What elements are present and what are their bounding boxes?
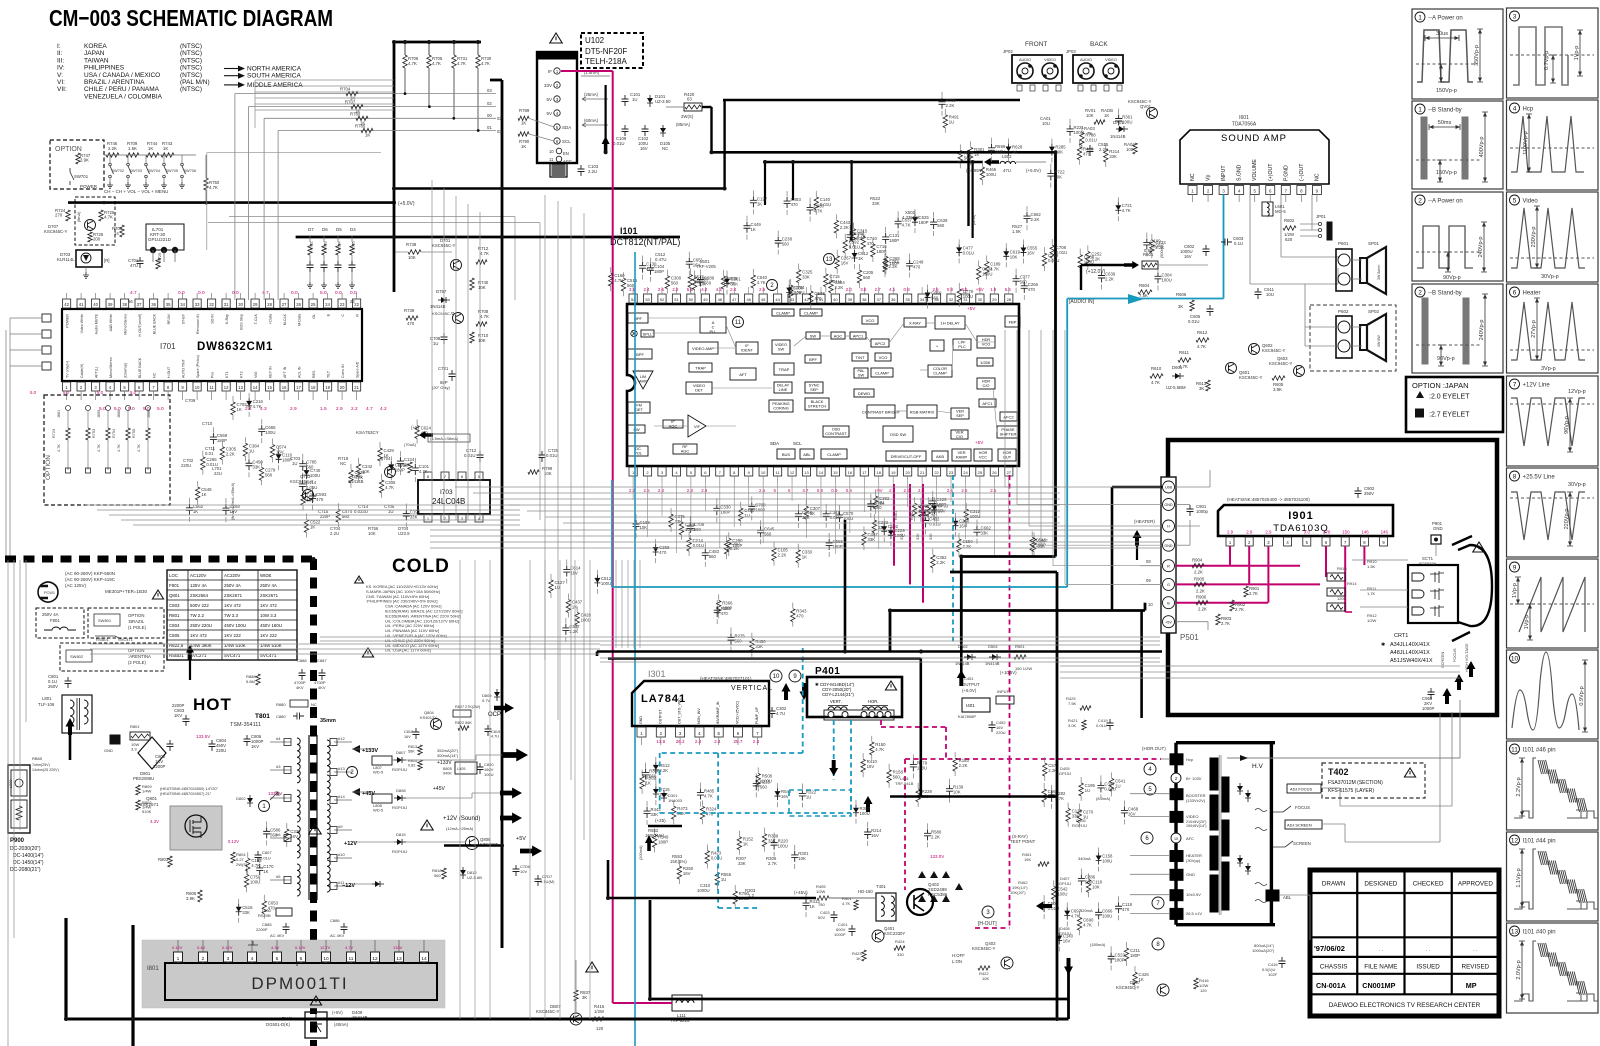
svg-text:39: 39 xyxy=(108,302,113,307)
svg-text:21: 21 xyxy=(354,385,359,390)
svg-text:16V: 16V xyxy=(871,833,879,838)
svg-text:2.9: 2.9 xyxy=(1227,530,1234,535)
resistor R801 boxed xyxy=(130,732,150,740)
svg-text:1U: 1U xyxy=(806,794,812,799)
svg-text:0.01U: 0.01U xyxy=(849,245,860,250)
svg-text:24: 24 xyxy=(963,470,968,475)
svg-text:VIDEO AMP: VIDEO AMP xyxy=(692,346,714,351)
svg-text:FSA37012M (SECTION): FSA37012M (SECTION) xyxy=(1328,780,1383,786)
resistor R747 3.9K xyxy=(76,153,80,164)
svg-text:3.3: 3.3 xyxy=(131,747,137,752)
svg-text:H.OUT(on/off): H.OUT(on/off) xyxy=(138,314,142,337)
svg-text:AKB: AKB xyxy=(936,454,944,459)
svg-text:2.0Vp-p: 2.0Vp-p xyxy=(1516,960,1522,979)
svg-text:BUS: BUS xyxy=(782,452,791,457)
svg-text:14: 14 xyxy=(253,385,258,390)
svg-text:330: 330 xyxy=(900,534,904,540)
bus +5V top with pull-ups xyxy=(394,41,481,44)
svg-text:VII:: VII: xyxy=(57,86,67,93)
svg-text:3W 8ohm: 3W 8ohm xyxy=(1377,265,1381,280)
svg-text:3.9K: 3.9K xyxy=(80,158,89,163)
capacitor C603 0.1U xyxy=(1221,239,1232,246)
svg-text:2.2K: 2.2K xyxy=(946,103,955,108)
svg-text:M-Data: M-Data xyxy=(298,314,302,326)
svg-text:16V: 16V xyxy=(640,146,648,151)
svg-text:3K: 3K xyxy=(582,995,587,1000)
svg-text:100U: 100U xyxy=(982,271,992,276)
svg-text:39: 39 xyxy=(848,297,853,302)
legend arrows NORTH/SOUTH/MIDDLE AMERICA xyxy=(224,68,238,70)
svg-text:(+5.0V): (+5.0V) xyxy=(1026,168,1041,173)
magenta dashed wire right of I101 xyxy=(1009,475,1011,759)
T801 core lines xyxy=(308,735,310,900)
zener D812 UZ-5.6B xyxy=(462,867,464,870)
svg-text:13: 13 xyxy=(826,257,833,263)
svg-text:15K(1%): 15K(1%) xyxy=(670,859,687,864)
svg-text:330: 330 xyxy=(916,534,920,540)
svg-text:OUT_STG_VCC: OUT_STG_VCC xyxy=(678,698,682,724)
svg-text:560: 560 xyxy=(265,472,273,477)
svg-text:(+12.0V): (+12.0V) xyxy=(1086,269,1106,275)
svg-text:D815: D815 xyxy=(396,832,406,837)
svg-text:VCO: VCO xyxy=(866,318,875,323)
svg-text:I101 #46 pin: I101 #46 pin xyxy=(1523,748,1556,754)
svg-text:53: 53 xyxy=(645,297,650,302)
circled number 11 xyxy=(733,317,744,328)
diode D301 1N4003 xyxy=(663,790,665,793)
svg-text:36: 36 xyxy=(891,297,896,302)
svg-text:R: R xyxy=(356,314,360,317)
bus horizontal y188 xyxy=(394,187,725,190)
svg-text:40: 40 xyxy=(93,302,98,307)
svg-text:AFT(L): AFT(L) xyxy=(95,367,99,378)
svg-text:4.7: 4.7 xyxy=(366,406,373,412)
svg-text:C819: C819 xyxy=(491,730,500,734)
svg-text:20: 20 xyxy=(340,385,345,390)
svg-text:330: 330 xyxy=(929,534,933,540)
IR receiver IL701 KRT-30 GP1U221D xyxy=(146,224,184,250)
svg-text:2.5: 2.5 xyxy=(990,488,997,493)
svg-text:R822 56K: R822 56K xyxy=(455,721,472,725)
svg-text:320mA: 320mA xyxy=(1080,908,1093,913)
svg-text:2.2K: 2.2K xyxy=(1194,570,1203,575)
svg-text:DC-2080(21”): DC-2080(21”) xyxy=(10,867,41,873)
svg-text:0.01U: 0.01U xyxy=(711,856,722,861)
warning triangle near U102 xyxy=(550,33,562,43)
svg-text:(+5.0V): (+5.0V) xyxy=(962,688,977,693)
svg-text:I-Data: I-Data xyxy=(269,314,273,324)
svg-text:100U: 100U xyxy=(265,430,275,435)
svg-text:(NTSC): (NTSC) xyxy=(180,72,202,79)
capacitor C806 1000P xyxy=(244,735,251,746)
svg-text:ISSUED: ISSUED xyxy=(1416,964,1440,971)
svg-text:4.7K: 4.7K xyxy=(614,278,623,283)
svg-text:10K: 10K xyxy=(478,338,486,343)
svg-text:VCO: VCO xyxy=(879,355,888,360)
svg-text:KS4013Y: KS4013Y xyxy=(420,715,437,720)
svg-text:560: 560 xyxy=(627,283,635,288)
svg-text:0.01U: 0.01U xyxy=(464,453,475,458)
svg-text:10±0.5V: 10±0.5V xyxy=(1186,892,1201,897)
capacitors C7D6 C7D7 cluster xyxy=(513,865,520,876)
svg-text:C: C xyxy=(341,314,345,317)
svg-text:1U: 1U xyxy=(949,120,955,125)
svg-text:✱: ✱ xyxy=(1381,642,1385,648)
svg-text:150 1/2W: 150 1/2W xyxy=(1015,666,1032,671)
diode D601 UZ-5.6BM xyxy=(1172,375,1175,377)
wire stubs below I101 pins xyxy=(632,484,634,500)
I101 internal wires xyxy=(648,317,700,319)
resistor R420 63 2W(S) boxed xyxy=(684,103,702,111)
svg-text:2.2K: 2.2K xyxy=(834,285,843,290)
svg-text:R785: R785 xyxy=(355,124,366,129)
svg-text:CH − CH + VOL − VOL + ME: CH − CH + VOL − VOL + MENU xyxy=(104,189,168,194)
svg-text:18: 18 xyxy=(311,385,316,390)
svg-text:5: 5 xyxy=(276,956,279,962)
svg-text:1.7K: 1.7K xyxy=(1367,591,1376,596)
svg-text:34: 34 xyxy=(920,297,925,302)
svg-text:5.0: 5.0 xyxy=(320,290,327,296)
svg-text:250V 4A: 250V 4A xyxy=(224,583,241,588)
transistor Q702 xyxy=(85,220,96,231)
svg-text::ARENTINA: :ARENTINA xyxy=(128,654,151,659)
svg-text:B+ 103V: B+ 103V xyxy=(1186,776,1202,781)
svg-text:DRAWN: DRAWN xyxy=(1322,881,1346,888)
svg-text:UZ-5.6B: UZ-5.6B xyxy=(467,875,482,880)
svg-text:10: 10 xyxy=(1511,655,1519,662)
svg-text:(25mA): (25mA) xyxy=(584,92,599,97)
svg-text:0.01U: 0.01U xyxy=(260,856,271,861)
svg-text:4.7K: 4.7K xyxy=(757,280,766,285)
resistor R805 3.9K xyxy=(198,890,202,902)
svg-text:ME301P+TER=1B30: ME301P+TER=1B30 xyxy=(105,589,148,594)
svg-text:10K: 10K xyxy=(698,282,706,287)
svg-text:7W 3.3: 7W 3.3 xyxy=(224,613,238,618)
svg-text:DESIGNED: DESIGNED xyxy=(1364,881,1397,888)
svg-text:(Downsp): (Downsp) xyxy=(124,363,128,378)
svg-text:560: 560 xyxy=(709,554,717,559)
svg-text:1K: 1K xyxy=(858,256,863,261)
svg-text:(AC 90-260V) KKP-560N: (AC 90-260V) KKP-560N xyxy=(65,571,115,576)
svg-text:560: 560 xyxy=(1085,879,1093,884)
resistor R612 4.7K xyxy=(1196,338,1209,342)
svg-text:146: 146 xyxy=(1381,530,1389,535)
wires inside CRT block xyxy=(1176,486,1210,488)
resistor R804 0.27 2W(S) xyxy=(231,852,235,863)
svg-text:14: 14 xyxy=(421,956,427,962)
svg-text:3.5: 3.5 xyxy=(860,287,867,292)
bus vertical x968 CRT feed xyxy=(967,152,969,226)
svg-text:R733: R733 xyxy=(324,241,328,250)
OPTION dashed box SW701 xyxy=(50,140,104,189)
svg-text:IV:: IV: xyxy=(57,65,65,72)
svg-text:1K: 1K xyxy=(572,604,577,609)
capacitor C701 47U xyxy=(137,257,144,268)
svg-text:--A Power on: --A Power on xyxy=(1428,199,1463,205)
svg-text:13: 13 xyxy=(804,470,809,475)
svg-text:8: 8 xyxy=(1513,473,1517,480)
svg-text:10K: 10K xyxy=(478,285,486,290)
svg-text:35: 35 xyxy=(166,302,171,307)
svg-text:[AUDIO IN]: [AUDIO IN] xyxy=(1069,299,1095,305)
svg-text:Mono/Stereo: Mono/Stereo xyxy=(109,357,113,378)
svg-text:1KV 472: 1KV 472 xyxy=(224,603,241,608)
bus vertical x394 xyxy=(393,42,396,292)
svg-text:100U: 100U xyxy=(986,172,996,177)
wires R704 R707 R780 R785 rows xyxy=(235,93,496,95)
svg-text:180P: 180P xyxy=(1115,957,1125,962)
svg-text:CHASSIS: CHASSIS xyxy=(1320,964,1348,971)
svg-text:11: 11 xyxy=(549,157,554,162)
eyelet triangles near yoke circuit xyxy=(918,871,926,878)
svg-text:2.5: 2.5 xyxy=(643,488,650,493)
svg-text:5: 5 xyxy=(1513,197,1517,204)
svg-text:GND: GND xyxy=(1164,503,1173,507)
resistors R789 R790 1K to tuner xyxy=(518,116,529,120)
svg-text:11: 11 xyxy=(1511,746,1518,753)
svg-text:52: 52 xyxy=(660,297,665,302)
svg-text:UZ-3.50: UZ-3.50 xyxy=(655,99,671,104)
wire gray y222 horizontal xyxy=(208,222,540,224)
svg-text:2.8: 2.8 xyxy=(687,488,694,493)
svg-text:4KV: 4KV xyxy=(318,685,326,690)
capacitor C804 main filter xyxy=(209,740,216,751)
svg-text:2.2K: 2.2K xyxy=(1030,217,1039,222)
svg-text:AFT IN: AFT IN xyxy=(283,366,287,378)
svg-text:REVISED: REVISED xyxy=(1462,964,1490,971)
svg-text:560: 560 xyxy=(863,275,871,280)
svg-text:--A Power on: --A Power on xyxy=(1428,16,1463,22)
svg-text:190±5V(14”): 190±5V(14”) xyxy=(1186,824,1206,828)
svg-text:2.4: 2.4 xyxy=(245,406,252,412)
svg-text:2.2: 2.2 xyxy=(351,406,358,412)
svg-text:AFC: AFC xyxy=(1186,836,1194,841)
flyback secondary diodes xyxy=(1247,790,1249,793)
svg-text:1KV: 1KV xyxy=(251,744,259,749)
svg-text:4.7K: 4.7K xyxy=(57,444,61,452)
I101 SPLL mixer circle xyxy=(631,330,637,336)
svg-text:RB85: RB85 xyxy=(32,756,43,761)
svg-text:(1 POLE): (1 POLE) xyxy=(128,625,146,630)
svg-text:4.7K: 4.7K xyxy=(1071,914,1080,919)
svg-text:X-RAY: X-RAY xyxy=(909,320,921,325)
svg-text:#14: #14 xyxy=(338,794,345,799)
flyback winding bars xyxy=(1210,758,1218,790)
svg-text:+5V: +5V xyxy=(1165,620,1172,624)
svg-text:100U: 100U xyxy=(859,811,869,816)
svg-text:(AC 90-260V) KKP-419C: (AC 90-260V) KKP-419C xyxy=(65,577,116,582)
svg-text:CLAMP: CLAMP xyxy=(827,452,841,457)
dashed box remote sensor bias xyxy=(75,197,115,245)
capacitor C902 250V 0.1U xyxy=(1355,487,1362,498)
svg-text:45: 45 xyxy=(761,297,766,302)
svg-text:9: 9 xyxy=(1513,564,1517,571)
wire mesh top-left to bus xyxy=(255,79,394,81)
svg-text:SW801: SW801 xyxy=(98,618,112,623)
svg-text:35mm: 35mm xyxy=(320,718,336,724)
svg-text:INPUT: INPUT xyxy=(997,689,1010,694)
wire 33V bus down xyxy=(604,85,606,152)
svg-text:OSD SW: OSD SW xyxy=(890,432,906,437)
wire gray y216 horizontal xyxy=(229,216,515,218)
AC plug PCW1 xyxy=(38,582,58,602)
svg-text:450V 100U: 450V 100U xyxy=(224,623,246,628)
resistor R710 10K xyxy=(470,332,474,343)
svg-text:1/2W: 1/2W xyxy=(816,889,826,894)
svg-text:16V: 16V xyxy=(1063,939,1071,944)
svg-text:0.4V: 0.4V xyxy=(197,945,206,950)
ground pin symbol DPM xyxy=(248,941,258,945)
svg-text:13: 13 xyxy=(1511,928,1519,935)
capacitor C802 1KV 2200P xyxy=(167,740,174,751)
svg-text:1K: 1K xyxy=(743,842,748,847)
svg-text:RGB MATRIX: RGB MATRIX xyxy=(910,409,935,414)
svg-text:2.3: 2.3 xyxy=(753,739,760,744)
svg-text:DW8632CM1: DW8632CM1 xyxy=(197,341,273,353)
svg-text:HOR.: HOR. xyxy=(868,699,878,704)
+25V thick feed xyxy=(648,825,682,828)
svg-text:OUTPUT: OUTPUT xyxy=(658,709,662,724)
component cluster flyback rectifiers D405-D408 R411-R414 xyxy=(1077,810,1081,823)
svg-text:32: 32 xyxy=(949,297,954,302)
svg-text:KSC2330Y: KSC2330Y xyxy=(884,931,905,936)
svg-text:14ohm(25 220V): 14ohm(25 220V) xyxy=(32,768,59,772)
svg-text:5V: 5V xyxy=(546,97,552,102)
svg-text:08: 08 xyxy=(1146,559,1151,564)
svg-text:(HEATSINK:4857024507) 21”: (HEATSINK:4857024507) 21” xyxy=(160,791,212,796)
svg-text:CRT1: CRT1 xyxy=(1394,633,1408,639)
circled pins 4-8 flyback xyxy=(1144,763,1156,775)
svg-text:180P: 180P xyxy=(720,509,730,514)
svg-text:VCC: VCC xyxy=(979,455,987,460)
capacitor C708 1U xyxy=(441,333,448,344)
svg-text:R704: R704 xyxy=(340,87,351,92)
svg-text:133V: 133V xyxy=(393,945,403,950)
DPM001TI pin row xyxy=(174,952,183,962)
svg-text:Remocon IN: Remocon IN xyxy=(196,314,200,334)
svg-text:IF: IF xyxy=(548,69,552,74)
svg-text:560: 560 xyxy=(671,281,679,286)
svg-text:(6mA): (6mA) xyxy=(972,214,976,225)
svg-text:30Vp-p: 30Vp-p xyxy=(1568,482,1586,488)
svg-text:63: 63 xyxy=(687,97,692,102)
svg-text:1K: 1K xyxy=(974,152,979,157)
resistor R611 4.7K xyxy=(1178,358,1191,362)
svg-text:Spare (Philco): Spare (Philco) xyxy=(196,355,200,378)
svg-text:WD-5: WD-5 xyxy=(373,770,384,775)
label box U102 DT5-NF20F TELH-218A xyxy=(581,33,643,68)
option box SW801 BRAZIL xyxy=(88,608,164,638)
svg-text:BACK: BACK xyxy=(1090,41,1108,48)
svg-text:2.2U: 2.2U xyxy=(588,169,597,174)
svg-text:1Vp-p: 1Vp-p xyxy=(1512,583,1518,598)
svg-text:10: 10 xyxy=(1174,837,1178,841)
svg-text:0.0: 0.0 xyxy=(198,290,205,296)
svg-text:33K: 33K xyxy=(1109,154,1117,159)
svg-text:03: 03 xyxy=(497,129,502,134)
svg-text:S.GND: S.GND xyxy=(1237,164,1243,181)
svg-text:100U: 100U xyxy=(794,290,804,295)
fuse F801 dashed box xyxy=(36,608,84,638)
svg-text:J006: J006 xyxy=(147,410,151,418)
svg-text:25: 25 xyxy=(978,470,983,475)
svg-text:25: 25 xyxy=(311,302,316,307)
svg-text:5.0: 5.0 xyxy=(30,390,37,395)
svg-text:KT1: KT1 xyxy=(225,371,229,378)
svg-text:29: 29 xyxy=(253,302,258,307)
svg-text:1K: 1K xyxy=(163,146,168,151)
svg-text:SP02: SP02 xyxy=(1368,309,1380,314)
svg-text:12Vp-p: 12Vp-p xyxy=(1568,389,1586,395)
svg-text:+12V Line: +12V Line xyxy=(1523,383,1551,389)
svg-text:H: H xyxy=(1167,525,1170,529)
waveform panel 1-A Power on xyxy=(1412,9,1503,99)
svg-text:27: 27 xyxy=(282,302,287,307)
svg-text:Cable(H): Cable(H) xyxy=(80,364,84,378)
svg-text:+5V: +5V xyxy=(967,306,976,311)
svg-text:1.1Vp-p: 1.1Vp-p xyxy=(1516,868,1522,887)
svg-text:2.7: 2.7 xyxy=(875,287,882,292)
svg-text:KFS-61575 (LAYER): KFS-61575 (LAYER) xyxy=(1328,788,1374,794)
svg-text:4.3V: 4.3V xyxy=(271,945,280,950)
svg-text:(20” Only): (20” Only) xyxy=(432,385,450,390)
svg-text:R738: R738 xyxy=(406,242,417,247)
svg-text:0.01U: 0.01U xyxy=(963,250,974,255)
resistor R416 etc near P501 xyxy=(1194,978,1198,989)
svg-text:FRONT: FRONT xyxy=(1025,41,1047,48)
svg-text:1K: 1K xyxy=(809,904,814,909)
svg-text:QV01: QV01 xyxy=(1140,104,1152,109)
svg-text:48: 48 xyxy=(718,297,723,302)
OPTION JAPAN eyelet legend box xyxy=(1406,377,1503,432)
svg-text:33K: 33K xyxy=(867,537,875,542)
svg-text:180P: 180P xyxy=(889,261,899,266)
svg-text:13.8: 13.8 xyxy=(656,739,665,744)
svg-text:PCW1: PCW1 xyxy=(44,591,55,595)
svg-text:2200P: 2200P xyxy=(256,927,268,932)
svg-text:560: 560 xyxy=(937,223,945,228)
svg-text:R880: R880 xyxy=(276,702,286,707)
svg-text:100U: 100U xyxy=(484,772,494,777)
svg-text:180P: 180P xyxy=(755,507,765,512)
svg-text:I901: I901 xyxy=(1288,510,1313,522)
svg-text:6: 6 xyxy=(300,956,303,962)
svg-text:ACL IN: ACL IN xyxy=(298,366,302,378)
svg-text:(8.0mA): (8.0mA) xyxy=(1096,796,1111,801)
svg-text:KSC945C-Y: KSC945C-Y xyxy=(1269,361,1293,366)
svg-text:3Vp-p: 3Vp-p xyxy=(1541,366,1556,372)
svg-text:1K: 1K xyxy=(201,492,206,497)
svg-text:C818: C818 xyxy=(404,730,413,734)
svg-text:2.4: 2.4 xyxy=(730,287,737,292)
thick bus x845 vertical xyxy=(844,520,847,652)
svg-text:5.0: 5.0 xyxy=(157,406,164,412)
svg-text:HD-150: HD-150 xyxy=(858,889,873,894)
svg-text:7.5K: 7.5K xyxy=(1068,701,1077,706)
R,G,B wires into P501 xyxy=(1140,565,1162,567)
inductor L111 TRF-9225 xyxy=(672,995,702,1011)
svg-text:1U: 1U xyxy=(1115,783,1121,788)
svg-text:2.4: 2.4 xyxy=(695,739,702,744)
resistor R610 4.7K xyxy=(1150,374,1163,378)
svg-text:DAEWOO ELECTRONICS TV RESEARCH: DAEWOO ELECTRONICS TV RESEARCH CENTER xyxy=(1329,1002,1481,1009)
svg-text:10K: 10K xyxy=(368,531,376,536)
bottom bus y1019 xyxy=(66,1018,1069,1021)
component cluster center C724 R703 area xyxy=(575,612,579,625)
MOSFET Q801 2SK2671 with shaded box xyxy=(170,806,222,850)
svg-text:42: 42 xyxy=(64,302,69,307)
svg-text:+25.5V Line: +25.5V Line xyxy=(1523,475,1556,481)
